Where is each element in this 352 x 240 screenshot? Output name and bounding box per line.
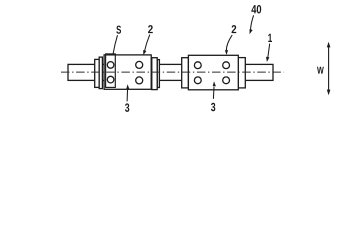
seal case S compartment [106,54,116,88]
left body bolt top [136,61,143,68]
leader 2 right [226,35,232,51]
right block end plate left [182,58,189,88]
svg-text:3: 3 [125,101,130,115]
left block body 3 [104,55,151,89]
svg-text:2: 2 [231,24,236,36]
svg-text:1: 1 [268,31,273,45]
svg-text:40: 40 [251,2,262,16]
centerline axis [61,71,284,73]
svg-text:W: W [317,66,324,77]
leader 3 left [126,88,129,101]
right body bolt top right [223,62,230,69]
dimension arrow W [328,45,330,93]
right block body 3 [188,55,238,90]
svg-text:S: S [116,25,121,37]
leader 1 [268,44,270,58]
arrowhead 3 right [213,81,216,86]
arrowhead 2 right [225,50,228,55]
right block end plate right [238,58,245,88]
seal bolt top [107,62,114,69]
arrowhead 40 [250,29,253,34]
spline shaft 1 [68,64,273,80]
leader S [113,35,117,54]
arrowhead 3 left [126,84,129,89]
seal bolt bottom [107,76,114,83]
left body bolt bottom [136,77,143,84]
right body bolt bottom left [194,77,201,84]
left block end plate outer right [157,60,159,88]
leader 40 [250,15,253,30]
leader 2 left [144,35,150,52]
right body bolt top left [194,62,201,69]
arrowhead 2 left [143,50,146,55]
svg-text:3: 3 [211,100,216,114]
svg-text:2: 2 [148,24,153,36]
left block end plate inner right [152,58,157,90]
arrowhead 1 [266,57,269,62]
right body bolt bottom right [223,77,230,84]
left block end plate outer left [95,59,100,87]
left block end plate inner left [99,57,102,89]
leader 3 right [212,87,215,99]
